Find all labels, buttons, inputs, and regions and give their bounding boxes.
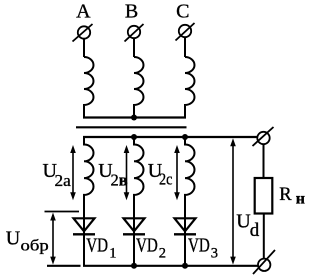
svg-text:н: н bbox=[296, 190, 305, 207]
secondary winding c bbox=[185, 137, 195, 218]
wire resistor to bottom terminal bbox=[263, 214, 265, 259]
primary winding C bbox=[185, 57, 195, 118]
primary winding B bbox=[134, 57, 144, 118]
terminal A bbox=[73, 24, 93, 42]
diode VD3 bbox=[174, 195, 196, 265]
wire terminal C to primary C bbox=[184, 37, 186, 57]
svg-text:2в: 2в bbox=[111, 171, 128, 190]
svg-text:R: R bbox=[279, 185, 292, 205]
wire primary star bus bbox=[83, 116, 186, 118]
terminal output minus bbox=[253, 250, 275, 274]
svg-text:VD: VD bbox=[86, 236, 108, 257]
wire Uobr top reference tick bbox=[45, 211, 80, 213]
wire terminal B to primary B bbox=[133, 38, 135, 57]
arrow U2b bbox=[124, 145, 130, 200]
transformer core bbox=[76, 126, 187, 128]
wire terminal to resistor bbox=[263, 144, 265, 178]
wire cathode bus bbox=[47, 265, 81, 267]
terminal C bbox=[176, 23, 195, 41]
svg-text:U: U bbox=[6, 228, 21, 250]
arrow Ud bbox=[230, 138, 236, 264]
wire terminal A to primary A bbox=[83, 39, 85, 57]
resistor RH bbox=[255, 178, 273, 214]
secondary winding a bbox=[84, 137, 94, 218]
svg-text:VD: VD bbox=[188, 236, 210, 257]
node secondary C junction bbox=[182, 134, 188, 140]
svg-text:C: C bbox=[176, 0, 189, 22]
svg-text:3: 3 bbox=[211, 246, 218, 262]
arrow Uobr bbox=[50, 213, 56, 265]
diode VD1 bbox=[73, 195, 95, 265]
node cathode C junction bbox=[182, 263, 188, 269]
svg-text:обр: обр bbox=[21, 237, 49, 254]
secondary winding b bbox=[134, 137, 144, 218]
node secondary B junction bbox=[131, 134, 137, 140]
svg-text:A: A bbox=[76, 0, 91, 22]
svg-text:B: B bbox=[125, 0, 138, 22]
arrow U2c bbox=[174, 145, 180, 200]
svg-text:1: 1 bbox=[109, 246, 116, 262]
wire secondary bus bbox=[83, 136, 257, 138]
diode VD2 bbox=[123, 195, 145, 265]
svg-text:2c: 2c bbox=[159, 170, 172, 189]
terminal output plus bbox=[253, 127, 274, 146]
svg-text:VD: VD bbox=[136, 236, 158, 257]
primary winding A bbox=[84, 57, 94, 118]
svg-text:d: d bbox=[250, 220, 260, 241]
svg-text:2a: 2a bbox=[55, 171, 72, 190]
node cathode B junction bbox=[131, 263, 137, 269]
node primary B junction bbox=[131, 115, 137, 121]
svg-text:2: 2 bbox=[159, 246, 166, 262]
arrow U2a bbox=[70, 145, 76, 200]
terminal B bbox=[125, 24, 144, 42]
